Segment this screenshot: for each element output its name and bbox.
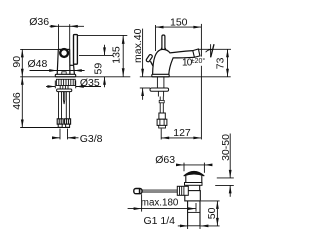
deck line front — [20, 76, 130, 78]
drain tailpipe — [187, 201, 189, 226]
dimension Ø36 arrows — [51, 25, 78, 28]
svg-text:406: 406 — [11, 92, 23, 110]
faucet body front outline — [57, 49, 74, 74]
washer plate front — [57, 89, 72, 92]
svg-text:73: 73 — [214, 57, 226, 69]
extension line right of Ø36 — [69, 24, 71, 49]
svg-text:G1 1/4: G1 1/4 — [144, 215, 176, 227]
dimension G3/8 — [59, 129, 61, 140]
shank above washer — [59, 86, 61, 90]
drain cap dome — [184, 171, 205, 176]
svg-text:Ø48: Ø48 — [28, 58, 48, 70]
extension line hose end — [20, 127, 70, 129]
drain lip washer — [185, 183, 203, 186]
brand plate on body — [62, 72, 66, 75]
shank lower side — [157, 91, 159, 96]
dimension 135 — [77, 34, 127, 36]
extension line 150/127 right — [200, 24, 202, 57]
faucet side: lever stem — [162, 35, 165, 49]
svg-text:±20°: ±20° — [191, 57, 206, 65]
dimension 73 — [199, 48, 231, 50]
svg-text:max.40: max.40 — [132, 28, 144, 63]
hose connector side — [159, 113, 165, 119]
svg-text:50: 50 — [206, 207, 218, 219]
extension line left of Ø36 — [58, 24, 60, 49]
dimension 59 — [79, 54, 114, 56]
base flange front — [55, 74, 75, 77]
dimension 50 — [201, 200, 220, 202]
shank below deck side — [156, 77, 158, 88]
mounting nut under deck — [56, 79, 75, 85]
angle dimension 10±20' — [210, 44, 212, 57]
svg-text:127: 127 — [173, 127, 191, 139]
dimension max.40 — [142, 29, 144, 77]
washer extension line (max.40) — [140, 87, 150, 89]
svg-text:30-50: 30-50 — [220, 134, 232, 161]
dimension 127 — [160, 129, 162, 140]
deck line side — [140, 76, 231, 78]
drain neck — [186, 185, 188, 190]
hose connector nuts — [57, 119, 63, 124]
supply hoses front — [58, 92, 60, 119]
svg-text:Ø63: Ø63 — [155, 154, 175, 166]
pull rod — [134, 189, 177, 191]
lever handle front (hanging bar) — [74, 35, 78, 65]
dimension 406 — [21, 77, 23, 128]
svg-text:max.180: max.180 — [141, 198, 179, 209]
centre pop-up rod front — [63, 92, 64, 104]
faucet side: body and spout outline — [153, 49, 195, 74]
svg-text:59: 59 — [93, 63, 105, 75]
svg-text:135: 135 — [111, 46, 123, 64]
clamp washer side — [150, 88, 169, 91]
svg-text:90: 90 — [11, 56, 23, 68]
drain body — [185, 191, 201, 201]
dimension 30-50 — [229, 134, 231, 178]
svg-text:Ø36: Ø36 — [29, 16, 49, 28]
svg-text:G3/8: G3/8 — [80, 133, 103, 145]
lever pivot ring — [60, 49, 68, 57]
extension line 150 left — [155, 25, 157, 51]
pull rod knob — [134, 189, 142, 194]
drain cap skirt — [186, 176, 202, 183]
base flange side — [152, 74, 169, 77]
dimension 90 — [20, 48, 58, 50]
dimension Ø36 line — [50, 25, 85, 27]
spout tip cap — [193, 49, 200, 57]
pull rod knob at back — [150, 61, 153, 66]
rod clevis box — [177, 186, 188, 195]
